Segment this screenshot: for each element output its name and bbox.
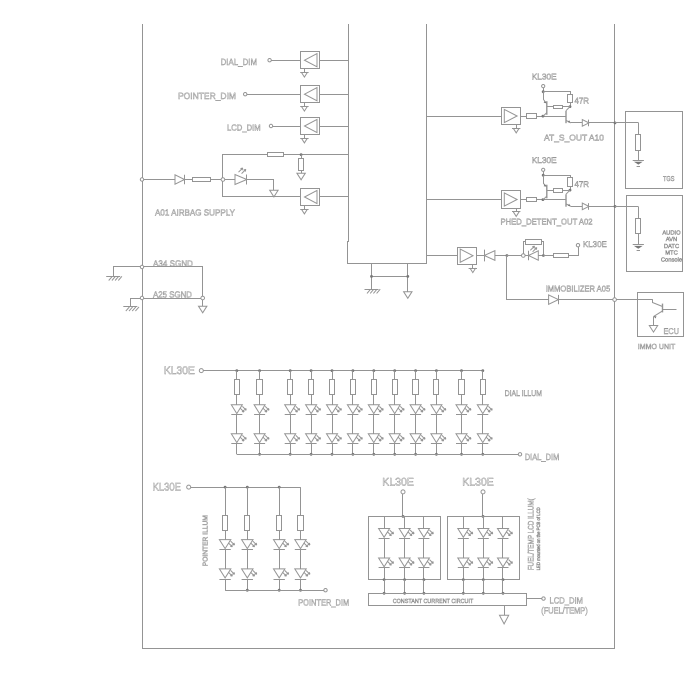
wire ATS base (536, 116, 566, 118)
diode ATS output (582, 120, 589, 127)
junction lcd col1 ccc (383, 592, 386, 595)
svg-text:KL30E: KL30E (382, 477, 414, 489)
wire AUDIO internal (638, 207, 640, 219)
ground under PHED buffer (512, 208, 520, 216)
junction lcd col4 ccc (462, 592, 465, 595)
LED column lcd 6 (498, 516, 513, 579)
wire diode to bus PHED (589, 206, 615, 208)
LED column dial 1 (231, 371, 246, 455)
wire PHED base (536, 199, 566, 201)
svg-text:POINTER_DIM: POINTER_DIM (178, 91, 236, 101)
svg-text:KL30E: KL30E (532, 155, 557, 165)
wire A25 right (144, 298, 201, 300)
junction bus PHED (614, 205, 617, 208)
label FUEL/TEMP LCD ILLUM (527, 498, 536, 570)
diode D5 immobilizer out (549, 295, 559, 304)
box IMMO UNIT (638, 293, 684, 337)
svg-text:Console: Console (661, 257, 682, 264)
earth ground A25 (123, 307, 139, 312)
label A34 SGND (153, 259, 193, 269)
diode D1 airbag (175, 175, 185, 184)
label ECU (664, 326, 680, 336)
label IMMO UNIT (638, 342, 676, 351)
junction dial col3 bottom (289, 453, 292, 456)
LED column lcd 4 (458, 516, 473, 579)
junction lcd col3 bottom (423, 578, 426, 581)
junction dial col10 bottom (435, 453, 438, 456)
junction dial col10 top (435, 369, 438, 372)
label KL30E fuel2 (462, 477, 494, 489)
junction lcd col5 bottom (482, 578, 485, 581)
wire block to ATS buffer (426, 116, 501, 118)
LED column dial 9 (410, 371, 425, 455)
wire block ground tie (372, 276, 408, 278)
junction dial col1 top (235, 369, 238, 372)
ground immo unit (649, 326, 657, 333)
svg-text:ECU: ECU (664, 326, 680, 336)
wire KL30E down ATS (543, 88, 545, 92)
junction dial col9 bottom (414, 453, 417, 456)
label 47R PHED (575, 179, 590, 189)
junction KL30E PHED (542, 174, 545, 177)
junction dial col4 top (310, 369, 313, 372)
label AT_S_OUT A10 (544, 133, 604, 143)
wire Q2 emitter to diode PHED (571, 206, 583, 208)
earth ground under block (365, 289, 381, 293)
wire LED to right node (538, 255, 542, 257)
svg-text:LCD_DIM: LCD_DIM (227, 123, 261, 133)
label POINTER_DIM out (298, 597, 349, 607)
node A01 junction (221, 178, 225, 182)
svg-text:A01 AIRBAG SUPPLY: A01 AIRBAG SUPPLY (155, 208, 235, 218)
LED column dial 11 (456, 371, 471, 455)
svg-text:FUEL/TEMP LCD ILLUM(: FUEL/TEMP LCD ILLUM( (527, 498, 536, 570)
wire pointer top rail (191, 487, 301, 489)
LED column dial 7 (368, 371, 383, 455)
junction dial col6 top (352, 369, 355, 372)
junction dial col6 bottom (352, 453, 355, 456)
wire airbag buffer to block (320, 196, 349, 198)
junction 47R PHED (569, 189, 572, 192)
svg-text:IMMO UNIT: IMMO UNIT (638, 342, 676, 351)
terminal KL30E PHED (542, 168, 545, 171)
wire DIAL_DIM to block (320, 60, 349, 62)
svg-text:MTC: MTC (665, 250, 678, 257)
transistor Q2 ATS (566, 107, 571, 124)
junction LED right (542, 254, 545, 257)
node POINTER_DIM label (178, 91, 236, 101)
wire A25 node to ground (202, 300, 204, 306)
junction KL30E ATS (542, 90, 545, 93)
wire node up to top branch (223, 155, 268, 178)
wire right node to resistor (543, 255, 553, 257)
terminal KL30E dial (199, 369, 203, 373)
LED column dial 3 (285, 371, 300, 455)
diode PHED output (582, 203, 589, 210)
wire TGS resistor to ground (638, 150, 640, 160)
wire block to PHED buffer (426, 199, 501, 201)
LED column pointer 1 (219, 487, 234, 590)
buffer ATS (502, 108, 521, 125)
ground below R3 (297, 173, 305, 180)
wire 47R down ATS (570, 103, 572, 107)
LED column dial 5 (327, 371, 342, 455)
svg-text:AUDIO: AUDIO (662, 229, 681, 236)
junction PHED base (542, 198, 545, 201)
box TGS (626, 112, 683, 189)
resistor R1 airbag (193, 178, 211, 182)
svg-text:KL30E: KL30E (153, 481, 181, 493)
resistor TGS (636, 135, 641, 151)
junction dial col3 top (289, 369, 292, 372)
svg-text:POINTER ILLUM: POINTER ILLUM (203, 515, 210, 566)
diode D3 immo (484, 250, 495, 262)
wire POINTER_DIM input (247, 94, 301, 96)
wire block to immo buffer (426, 255, 457, 257)
terminal A01 on frame (140, 178, 143, 181)
wire lcd col6 to ccc (502, 580, 504, 594)
LED column dial 2 (254, 371, 269, 455)
label A25 SGND (153, 289, 192, 299)
junction dial col12 bottom (481, 453, 484, 456)
svg-text:DIAL ILLUM: DIAL ILLUM (505, 389, 543, 398)
wire bottom frame line (142, 648, 615, 650)
KL30E label PHED (532, 155, 557, 165)
terminal POINTER_DIM (244, 93, 247, 96)
junction dial col5 top (331, 369, 334, 372)
junction lcd col2 ccc (403, 592, 406, 595)
resistor 47R ATS (568, 95, 573, 103)
resistor Q1-Q2 PHED (547, 189, 570, 193)
wire diode to bus ATS (589, 122, 615, 124)
junction dial col8 bottom (393, 453, 396, 456)
junction pointer col2 bottom (246, 589, 249, 592)
wire A01 input (144, 179, 175, 181)
LED D4 immo (529, 246, 539, 260)
label KL30E dial (164, 365, 195, 377)
LED D2 airbag indicator (235, 168, 247, 185)
IC block U1 (main gauge controller) (348, 24, 427, 264)
svg-text:IMMOBILIZER A05: IMMOBILIZER A05 (546, 283, 611, 293)
wire LED to ground (247, 180, 274, 191)
transistor Q1 PHED (543, 176, 547, 200)
resistor parallel immo (524, 240, 544, 255)
resistor immo KL30E (554, 254, 569, 258)
junction ATS base (542, 115, 545, 118)
wire pointer bottom rail (225, 590, 324, 592)
terminal A25 on frame (140, 296, 143, 299)
junction top branch (300, 153, 303, 156)
wire resistor to KL30E terminal (569, 247, 579, 256)
label A01 AIRBAG SUPPLY (155, 208, 235, 218)
wire block ground left (371, 263, 373, 289)
LED column dial 12 (477, 371, 492, 455)
transistor immo unit (653, 300, 677, 326)
svg-text:A25 SGND: A25 SGND (153, 289, 192, 299)
svg-text:KL30E: KL30E (462, 477, 494, 489)
label FUEL/TEMP paren (541, 606, 587, 616)
wire PHED buffer to resistor (521, 199, 527, 201)
wire lcd col3 to ccc (423, 580, 425, 594)
wire left frame line (142, 24, 144, 649)
wire R2 to block (284, 154, 349, 156)
wire A34 left (114, 267, 141, 277)
wire node down to buffer (223, 182, 301, 197)
terminal KL30E ATS (542, 85, 545, 88)
wire Q2 emitter to diode ATS (571, 122, 583, 124)
junction pointer col3 top (278, 486, 281, 489)
wire fuel1 down (402, 494, 404, 517)
junction fuel1 box top (402, 515, 405, 518)
label DIAL ILLUM (505, 389, 543, 398)
junction dial col11 top (460, 369, 463, 372)
wire ATS buffer to resistor (521, 116, 527, 118)
terminal A25 node (201, 296, 205, 300)
ground A25 (199, 306, 207, 313)
junction dial col9 top (414, 369, 417, 372)
wire KL30E to 47R ATS (544, 92, 571, 95)
LED column lcd 3 (418, 516, 433, 579)
box LCD LED right (448, 517, 520, 580)
wire A34 right (144, 267, 203, 297)
wire ccc to LCD_DIM terminal (526, 598, 541, 600)
ground ccc (500, 615, 509, 624)
ground under airbag buffer (300, 206, 308, 214)
transistor Q2 PHED (566, 190, 571, 207)
label POINTER ILLUM (203, 515, 210, 566)
resistor ATS base (527, 114, 537, 119)
junction bus ATS (614, 122, 617, 125)
ground under DIAL_DIM buffer (300, 69, 308, 77)
terminal immobilizer bus (613, 298, 617, 302)
wire lcd col4 to ccc (463, 580, 465, 594)
svg-text:DIAL_DIM: DIAL_DIM (221, 57, 258, 67)
junction dial col8 top (393, 369, 396, 372)
wire dial bottom rail (237, 454, 519, 456)
transistor Q1 ATS (543, 92, 547, 117)
wire node to LED node (507, 255, 522, 257)
terminal LCD_DIM (269, 124, 272, 127)
svg-text:KL30E: KL30E (164, 365, 195, 377)
terminal LCD_DIM out (542, 597, 545, 600)
wire node to LED (225, 179, 235, 181)
svg-text:KL30E: KL30E (583, 239, 607, 249)
junction under block left (370, 275, 373, 278)
wire AUDIO resistor to ground (638, 233, 640, 244)
junction under block right (406, 275, 409, 278)
wire 47R down PHED (570, 186, 572, 190)
svg-text:AVN: AVN (666, 237, 678, 243)
junction lcd col6 bottom (502, 578, 505, 581)
junction dial col7 bottom (372, 453, 375, 456)
ground AUDIO (633, 245, 644, 251)
buffer LCD_DIM (301, 118, 320, 135)
svg-text:KL30E: KL30E (532, 72, 557, 82)
junction dial col5 bottom (331, 453, 334, 456)
label AUDIO box (661, 229, 682, 263)
junction dial col12 top (481, 369, 484, 372)
wire dial top rail (203, 370, 483, 372)
svg-text:TGS: TGS (663, 176, 675, 183)
buffer immo (458, 248, 477, 265)
wire A25 left (131, 299, 141, 307)
wire LCD_DIM input (273, 126, 301, 128)
wire LED left stub (525, 255, 528, 257)
wire R1 to node (210, 179, 221, 181)
resistor AUDIO (636, 219, 641, 234)
wire junction down (301, 155, 303, 159)
terminal DIAL_DIM (268, 59, 271, 62)
buffer DIAL_DIM (301, 52, 320, 69)
box AUDIO (627, 196, 683, 272)
wire D1 to R1 (185, 179, 194, 181)
earth ground A34 (106, 276, 122, 280)
ground after LED (270, 190, 278, 197)
buffer PHED (502, 191, 521, 209)
junction pointer col4 bottom (299, 589, 302, 592)
wire lcd col2 to ccc (404, 580, 406, 594)
ground under ATS buffer (512, 125, 520, 133)
ground TGS (633, 161, 644, 167)
resistor Q1-Q2 ATS (547, 106, 570, 109)
node DIAL_DIM label (221, 57, 258, 67)
junction lcd col6 ccc (502, 592, 505, 595)
KL30E label ATS (532, 72, 557, 82)
node LED left (522, 254, 526, 258)
junction fuel2 box top (482, 515, 485, 518)
terminal A34 on frame (140, 265, 143, 268)
wire fuel2 down (482, 494, 484, 517)
wire ccc ground stub (504, 606, 506, 616)
wire bus to immo unit (616, 299, 652, 301)
label KL30E fuel1 (382, 477, 414, 489)
wire LCD_DIM to block (320, 126, 349, 128)
junction lcd col4 bottom (462, 578, 465, 581)
svg-text:PHED_DETENT_OUT A02: PHED_DETENT_OUT A02 (501, 217, 593, 227)
svg-text:LCD_DIM: LCD_DIM (550, 596, 583, 606)
wire immobilizer to bus (558, 299, 613, 301)
box LCD LED left (369, 517, 441, 580)
wire KL30E down PHED (543, 171, 545, 175)
node LCD_DIM label (227, 123, 261, 133)
LED column lcd 2 (399, 516, 414, 579)
label KL30E immo (583, 239, 607, 249)
junction pointer col2 top (246, 486, 249, 489)
svg-text:POINTER_DIM: POINTER_DIM (298, 597, 349, 607)
ground under immo buffer (469, 264, 477, 272)
terminal DIAL_DIM out (518, 453, 521, 456)
LED column pointer 2 (242, 487, 257, 590)
svg-text:DATC: DATC (664, 243, 679, 250)
wire POINTER_DIM to block (320, 94, 349, 96)
resistor 47R PHED (568, 178, 573, 187)
svg-text:AT_S_OUT A10: AT_S_OUT A10 (544, 133, 604, 143)
wire bus to AUDIO box (615, 206, 638, 208)
label TGS (663, 176, 675, 183)
LED column lcd 5 (478, 516, 493, 579)
junction lcd col3 ccc (423, 592, 426, 595)
junction dial col2 bottom (258, 453, 261, 456)
terminal KL30E fuel2 (481, 490, 485, 494)
junction lcd col5 ccc (482, 592, 485, 595)
wire block ground right (407, 263, 409, 291)
wire immo node down (507, 256, 549, 300)
buffer U2 airbag (301, 189, 320, 206)
LED column dial 8 (389, 371, 404, 455)
wire diode to node (495, 255, 506, 257)
terminal KL30E immo (576, 244, 579, 247)
label LCD_DIM out (550, 596, 583, 606)
LED column dial 4 (306, 371, 321, 455)
junction dial col7 top (372, 369, 375, 372)
terminal KL30E fuel1 (401, 490, 405, 494)
wire TGS internal (638, 123, 640, 135)
junction dial col11 bottom (460, 453, 463, 456)
wire R3 to ground (301, 170, 303, 173)
label DIAL_DIM out (525, 452, 560, 462)
svg-text:LED mounted on the PCB of LCD: LED mounted on the PCB of LCD (536, 507, 542, 570)
label KL30E pointer (153, 481, 181, 493)
wire DIAL_DIM input (271, 60, 300, 62)
junction 47R ATS (569, 105, 572, 108)
wire right bus line (614, 24, 616, 649)
junction lcd col1 bottom (383, 578, 386, 581)
wire immo buffer to diode (476, 255, 484, 257)
svg-text:47R: 47R (575, 179, 590, 189)
LED column pointer 4 (295, 487, 310, 590)
ground under block right (404, 292, 412, 299)
junction dial col2 top (258, 369, 261, 372)
terminal KL30E pointer (187, 485, 191, 489)
label 47R ATS (575, 96, 590, 106)
label LED mounted on PCB (536, 507, 542, 570)
LED column lcd 1 (379, 516, 394, 579)
wire KL30E to 47R PHED (544, 176, 571, 178)
label PHED_DETENT_OUT A02 (501, 217, 593, 227)
buffer POINTER_DIM (301, 86, 320, 103)
svg-text:CONSTANT CURRENT CIRCUIT: CONSTANT CURRENT CIRCUIT (393, 598, 474, 605)
junction pointer col3 bottom (278, 589, 281, 592)
resistor PHED base (527, 198, 537, 202)
ground under LCD_DIM buffer (300, 135, 308, 143)
wire lcd col5 to ccc (483, 580, 485, 594)
svg-text:DIAL_DIM: DIAL_DIM (525, 452, 560, 462)
LED column dial 6 (347, 371, 362, 455)
label IMMOBILIZER A05 (546, 283, 611, 293)
resistor R3 pulldown (299, 159, 304, 171)
junction lcd col2 bottom (403, 578, 406, 581)
ground under POINTER_DIM buffer (300, 103, 308, 111)
wire bus to TGS box (615, 122, 638, 124)
wire lcd col1 to ccc (384, 580, 386, 594)
svg-text:47R: 47R (575, 96, 590, 106)
terminal POINTER_DIM out (324, 589, 327, 592)
junction immo node (506, 254, 509, 257)
junction dial col4 bottom (310, 453, 313, 456)
LED column pointer 3 (274, 487, 289, 590)
LED column dial 10 (431, 371, 446, 455)
box constant current circuit (369, 594, 527, 606)
label CONSTANT CURRENT CIRCUIT (393, 598, 474, 605)
resistor R2 top branch (268, 153, 284, 157)
svg-text:(FUEL/TEMP): (FUEL/TEMP) (541, 606, 587, 616)
junction pointer col1 top (224, 486, 227, 489)
